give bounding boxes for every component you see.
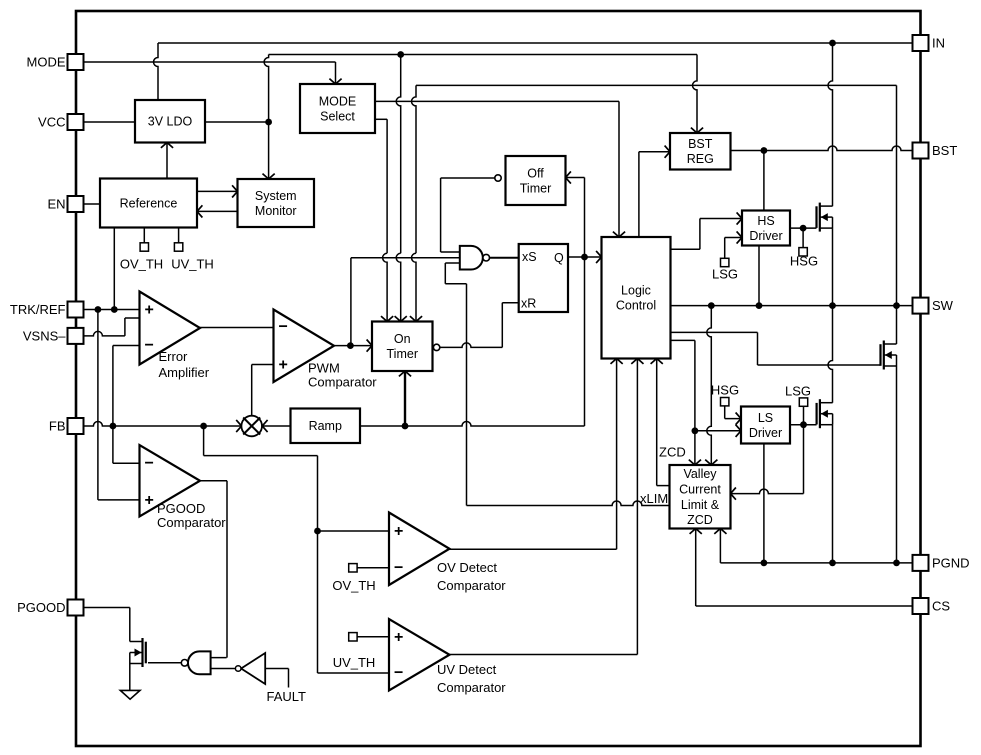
junction HSG: [800, 225, 807, 232]
wire SW to Valley top b: [707, 306, 712, 465]
HSG square near HS FET: [799, 228, 807, 256]
pin SW: [913, 298, 954, 314]
arrow into Logic Control bottom c: [651, 359, 663, 364]
wire gate NAND output to Q4 gate: [148, 662, 181, 664]
label UV Detect Comparator: [437, 662, 506, 695]
svg-text:LSG: LSG: [785, 384, 811, 399]
junction Q output: [581, 254, 588, 261]
wire Off Timer left to NAND input 1: [441, 178, 495, 252]
wire TRK/REF down to PGOOD comparator +: [98, 310, 140, 500]
wire SW rail: [671, 305, 913, 307]
op-amp OV Detect Comparator: [389, 513, 450, 586]
junction FB / EA minus: [110, 423, 117, 430]
transistor Q3 low-side FET: [817, 399, 833, 428]
pin CS: [913, 598, 951, 614]
wire drops into On Timer top: [383, 253, 416, 321]
off-timer input bubble: [495, 175, 501, 181]
junction SW a: [708, 302, 715, 309]
label PWM Comparator: [308, 361, 377, 390]
wire Q2 drain up to SW: [896, 306, 898, 344]
junction FB branch at OV detect +: [314, 528, 321, 535]
svg-text:Driver: Driver: [749, 229, 782, 243]
svg-text:Valley: Valley: [683, 467, 717, 481]
block MODE Select U7: [300, 84, 375, 133]
junction SW c: [829, 302, 836, 309]
label Error Amplifier: [159, 349, 210, 380]
inverter U5 FAULT: [235, 653, 265, 684]
transistor Q4 PGOOD FET: [130, 638, 146, 667]
svg-text:Select: Select: [320, 110, 355, 124]
pin FB: [49, 418, 84, 434]
svg-text:VSNS–: VSNS–: [23, 328, 66, 343]
svg-text:IN: IN: [932, 36, 945, 51]
wire FB pin rail: [84, 422, 242, 427]
label LSG near LS FET: [785, 384, 811, 399]
wire into OV Detect +: [318, 530, 390, 532]
wire CS pin to Valley bottom: [696, 529, 913, 607]
arrows into On Timer top: [381, 316, 422, 321]
svg-text:Monitor: Monitor: [255, 204, 297, 218]
svg-text:PGOOD: PGOOD: [157, 501, 205, 516]
wire Reference to System Monitor (forward): [197, 190, 238, 192]
block 3V LDO U6: [135, 100, 205, 143]
wire ZCD (Valley to Logic Control): [657, 359, 670, 486]
block Off Timer U10: [506, 156, 566, 205]
pin VSNS-: [23, 328, 84, 344]
wire OV Detect output to Logic Control: [450, 359, 617, 550]
wire Error Amplifier output to PWM -: [200, 327, 274, 329]
wire VCC pin to 3V LDO: [84, 121, 136, 123]
label PGOOD Comparator: [157, 501, 226, 530]
junction PWM output: [347, 342, 354, 349]
wire into UV Detect -: [318, 672, 390, 674]
svg-text:OV_TH: OV_TH: [332, 578, 375, 593]
junction TRK/REF node B: [111, 306, 118, 313]
svg-text:Q: Q: [554, 251, 564, 265]
block Reference U8: [100, 179, 197, 228]
ground symbol: [120, 690, 140, 699]
arrow into Logic Control left: [596, 251, 601, 263]
wire VSNS- pin to Error Amplifier mid input: [84, 318, 140, 336]
wire Q to Off Timer right: [566, 178, 585, 258]
svg-text:Comparator: Comparator: [308, 375, 377, 390]
UV_TH square: [349, 633, 389, 641]
junction PGND c: [893, 560, 900, 567]
block LS Driver U15: [741, 407, 790, 444]
arrow into System Monitor left: [232, 185, 237, 197]
svg-text:UV Detect: UV Detect: [437, 662, 497, 677]
wire System Monitor feed vertical: [264, 55, 269, 180]
svg-text:Current: Current: [679, 482, 721, 496]
svg-text:−: −: [394, 665, 403, 682]
svg-text:UV_TH: UV_TH: [171, 257, 214, 272]
wire MODE Select upper output to Logic Control top: [375, 101, 619, 237]
svg-text:EN: EN: [47, 197, 65, 212]
svg-text:+: +: [279, 357, 288, 374]
block Ramp U17: [291, 409, 361, 444]
pin PGND: [913, 555, 970, 571]
svg-text:ZCD: ZCD: [659, 445, 686, 460]
arrow into HS Driver upper: [737, 212, 742, 224]
wire MODE pin to MODE Select: [84, 62, 336, 84]
wire FAULT input: [265, 669, 288, 688]
svg-text:Comparator: Comparator: [437, 578, 506, 593]
arrow into LS Driver lower: [736, 425, 741, 437]
block Valley Current Limit & ZCD U16: [670, 465, 731, 529]
junction BST net / HS Driver: [761, 147, 768, 154]
wire Reference to 3V LDO: [166, 143, 168, 179]
svg-text:FAULT: FAULT: [267, 689, 307, 704]
label OV_TH: [332, 578, 375, 593]
svg-text:LSG: LSG: [712, 267, 738, 282]
arrow into 3V LDO bottom: [161, 143, 173, 148]
pin PGOOD: [17, 600, 83, 616]
junction PGND a: [761, 560, 768, 567]
svg-text:−: −: [145, 455, 154, 472]
svg-text:Control: Control: [616, 299, 656, 313]
wire HS Driver output to HS FET gate: [790, 227, 817, 229]
pin BST: [913, 143, 958, 159]
svg-text:On: On: [394, 332, 411, 346]
NAND gate U2: [460, 246, 490, 270]
svg-text:OV Detect: OV Detect: [437, 560, 497, 575]
svg-text:System: System: [255, 189, 297, 203]
svg-text:UV_TH: UV_TH: [333, 655, 376, 670]
junction PGND b: [829, 560, 836, 567]
transistor Q1 high-side FET: [817, 203, 833, 232]
wire PGOOD comparator to NAND: [211, 657, 227, 659]
wire Q3 source down to PGND: [832, 425, 834, 563]
svg-text:SW: SW: [932, 298, 954, 313]
wire PGOOD comparator output: [200, 481, 227, 658]
svg-text:HSG: HSG: [711, 383, 739, 398]
wire Q2 source down to PGND: [896, 366, 898, 563]
wire 3V LDO output: [205, 121, 269, 123]
svg-text:ZCD: ZCD: [687, 513, 713, 527]
arrow into On Timer left: [367, 340, 372, 352]
pin IN: [913, 35, 946, 51]
wire System Monitor to Reference (return): [197, 210, 238, 212]
svg-text:+: +: [394, 523, 403, 540]
arrow into multiplier left: [236, 420, 241, 432]
wire On-Timer net to right rail: [412, 85, 897, 305]
svg-text:VCC: VCC: [38, 115, 65, 130]
arrow into On Timer bottom: [399, 371, 411, 376]
svg-text:+: +: [145, 492, 154, 509]
svg-text:3V LDO: 3V LDO: [148, 115, 193, 129]
op-amp Error Amplifier: [140, 292, 201, 365]
wire BST net down to HS Driver top: [763, 151, 765, 211]
wire PWM output up to NAND: [351, 258, 460, 346]
label Q: [554, 251, 564, 265]
wire LS Driver output to LS FET gate: [790, 424, 817, 426]
wire Q4 source to ground: [129, 664, 131, 691]
wire Reference bottom to TRK/REF node: [113, 228, 115, 310]
wire Logic Control to BST REG input: [639, 152, 670, 237]
arrow into Valley right: [731, 488, 736, 500]
svg-text:PGOOD: PGOOD: [17, 600, 65, 615]
svg-text:HS: HS: [757, 214, 774, 228]
svg-text:HSG: HSG: [790, 254, 818, 269]
label LSG near HS Driver: [712, 267, 738, 282]
svg-text:Comparator: Comparator: [437, 680, 506, 695]
wire Q3 drain up to SW: [828, 306, 833, 403]
label ZCD: [659, 445, 686, 460]
label FAULT: [267, 689, 307, 704]
wire HS FET source to SW: [832, 228, 834, 306]
svg-text:FB: FB: [49, 419, 66, 434]
OV_TH square: [349, 564, 389, 572]
arrow into Reference right: [197, 205, 202, 217]
wire IN net top rail (3V LDO top to IN pin): [154, 43, 913, 100]
wire multiplier output to PWM +: [252, 365, 274, 416]
wire Reference OV_TH stub: [140, 228, 148, 252]
svg-text:−: −: [279, 319, 288, 336]
junction Ramp / On Timer: [402, 423, 409, 430]
label HSG near HS FET: [790, 254, 818, 269]
svg-text:xLIM: xLIM: [640, 491, 668, 506]
arrow into Logic Control top: [613, 232, 625, 237]
svg-text:xS: xS: [522, 250, 537, 264]
svg-text:Ramp: Ramp: [309, 419, 342, 433]
op-amp PWM Comparator: [274, 310, 335, 383]
wire VCC rail (System Monitor to BST REG top): [269, 55, 697, 134]
wire inverter to NAND: [211, 668, 236, 670]
HSG square near LS Driver: [721, 398, 742, 419]
pin MODE: [27, 54, 84, 70]
label UV_TH: [333, 655, 376, 670]
svg-text:TRK/REF: TRK/REF: [10, 302, 66, 317]
wire Ramp output to multiplier: [262, 420, 290, 432]
svg-text:CS: CS: [932, 599, 950, 614]
svg-text:+: +: [145, 302, 154, 319]
wire Logic Control to Valley block / LS Driver: [671, 340, 695, 465]
junction LSG: [800, 421, 807, 428]
wire FB / Error Amplifier - vertical: [113, 346, 140, 464]
wire MODE Select lower output to On Timer: [375, 119, 387, 253]
junction LS driver input: [692, 427, 699, 434]
label xR: [521, 297, 536, 311]
arrow into Valley top b: [705, 460, 717, 465]
svg-text:Timer: Timer: [520, 182, 551, 196]
wire On Timer output to xR: [440, 303, 519, 348]
wire Ramp output rail to latch: [360, 257, 585, 426]
arrow into System Monitor top: [263, 174, 275, 179]
svg-text:MODE: MODE: [319, 94, 357, 108]
wire PGND to Valley bottom: [719, 529, 721, 563]
transistor Q2 SW sense FET: [881, 341, 897, 370]
arrow into LS Driver upper: [736, 413, 741, 425]
arrow into Off Timer right: [566, 171, 571, 183]
wire PWM output to On Timer: [334, 345, 372, 347]
arrow into Valley bottom a: [690, 529, 702, 534]
wire PGND rail: [720, 562, 912, 564]
wire TRK/REF pin to Error Amplifier +: [84, 309, 140, 311]
arrow into HS Driver lower: [737, 231, 742, 243]
wire NAND output to xS: [490, 257, 519, 259]
junction VCC rail / On-Timer drop: [397, 51, 404, 58]
op-amp UV Detect Comparator: [389, 619, 450, 691]
svg-text:Limit &: Limit &: [681, 498, 720, 512]
label OV_TH under Reference: [120, 257, 163, 272]
op-amp PGOOD Comparator: [140, 445, 201, 517]
arrow into BST REG top: [691, 128, 703, 133]
wire xLIM to NAND input 3: [445, 263, 466, 506]
svg-text:BST: BST: [932, 143, 957, 158]
wire PGOOD pin to Q4 drain: [84, 608, 130, 642]
multiplier (X) symbol: [241, 416, 262, 437]
wire right vertical from IN rail to HS FET drain: [828, 43, 833, 206]
pin TRK/REF: [10, 302, 84, 318]
svg-text:MODE: MODE: [27, 55, 66, 70]
svg-text:Amplifier: Amplifier: [159, 365, 210, 380]
svg-text:Logic: Logic: [621, 284, 651, 298]
junction IN rail / right drop: [829, 40, 836, 47]
wire Q output to Logic Control: [568, 256, 602, 258]
svg-text:OV_TH: OV_TH: [120, 257, 163, 272]
block HS Driver U14: [742, 211, 790, 246]
label xS: [522, 250, 537, 264]
svg-text:Driver: Driver: [749, 426, 782, 440]
label UV_TH under Reference: [171, 257, 214, 272]
wire EN pin to Reference: [84, 203, 101, 205]
svg-text:Off: Off: [527, 166, 544, 180]
NAND gate U4 (mirrored): [181, 651, 210, 674]
junction SW d: [893, 302, 900, 309]
junction TRK/REF node A: [95, 306, 102, 313]
wire Logic Control to HS Driver upper: [671, 219, 743, 250]
wire xLIM (Valley to NAND): [467, 501, 670, 506]
pin VCC: [38, 114, 83, 130]
svg-text:Error: Error: [159, 349, 189, 364]
wire UV Detect output to Logic Control: [450, 359, 638, 655]
svg-text:PGND: PGND: [932, 555, 970, 570]
svg-text:Timer: Timer: [387, 347, 418, 361]
arrow into Valley bottom b: [714, 529, 726, 534]
arrow into Logic Control bottom a: [611, 359, 623, 364]
svg-text:Comparator: Comparator: [157, 515, 226, 530]
svg-text:+: +: [394, 629, 403, 646]
wire HS Driver bottom to SW: [758, 246, 760, 306]
svg-text:LS: LS: [758, 411, 773, 425]
wire LSG to Valley right input: [731, 425, 804, 494]
svg-text:−: −: [394, 559, 403, 576]
label HSG near LS Driver: [711, 383, 739, 398]
svg-text:REG: REG: [687, 152, 714, 166]
svg-text:BST: BST: [688, 137, 713, 151]
arrow into BST REG left: [665, 146, 670, 158]
wire to LS Driver lower input: [695, 430, 741, 432]
wire Reference UV_TH stub: [174, 228, 182, 252]
junction SW b: [756, 302, 763, 309]
junction 3V LDO output: [265, 119, 272, 126]
svg-text:−: −: [145, 337, 154, 354]
block BST REG U13: [670, 133, 731, 170]
label OV Detect Comparator: [437, 560, 506, 593]
wire Logic Control to SW FET gate: [671, 332, 881, 365]
block Logic Control U12: [602, 237, 671, 359]
block On Timer U11: [372, 322, 433, 372]
SR latch U3: [519, 244, 568, 312]
arrow into Logic Control bottom b: [631, 359, 643, 364]
junction FB / detect branch: [200, 423, 207, 430]
LSG square near LS FET: [799, 398, 807, 425]
arrow into Valley top a: [689, 460, 701, 465]
wire FB branch to detect comparators: [204, 426, 318, 673]
svg-text:Reference: Reference: [120, 196, 178, 210]
on-timer output bubble: [433, 344, 439, 350]
LSG square near HS Driver: [721, 238, 743, 267]
wire On Timer trigger (thick): [404, 371, 406, 426]
svg-text:PWM: PWM: [308, 361, 340, 376]
pin EN: [47, 196, 83, 212]
wire BST REG output to BST pin: [731, 146, 913, 150]
label xLIM: [640, 491, 668, 506]
arrow into MODE Select top: [329, 79, 341, 84]
block System Monitor U9: [238, 179, 315, 227]
svg-text:xR: xR: [521, 297, 536, 311]
wire LS Driver bottom to PGND: [763, 444, 765, 563]
wire mid drop to On Timer (from VCC rail): [396, 55, 401, 254]
